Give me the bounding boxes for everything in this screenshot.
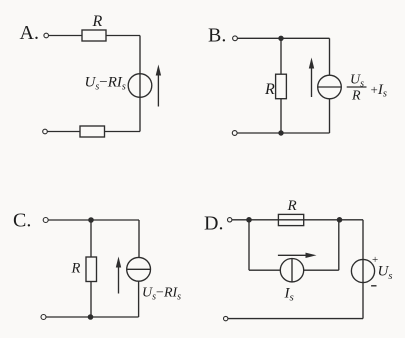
resistor R (option C) — [86, 257, 97, 282]
wire — [329, 99, 331, 133]
svg-text:D.: D. — [204, 213, 223, 235]
terminal (bottom-left, option D) — [224, 316, 228, 320]
svg-text:A.: A. — [20, 22, 39, 44]
node (junction dot bottom, option B) — [278, 130, 283, 135]
wire — [49, 35, 82, 37]
voltage source Us (option D) — [351, 259, 374, 282]
terminal (top-left, option A) — [44, 33, 49, 38]
arrow (reference direction, option A) — [156, 65, 161, 107]
terminal (top-left, option B) — [233, 36, 238, 41]
terminal (bottom-left, option A) — [43, 129, 48, 134]
svg-text:Us−RIs: Us−RIs — [142, 286, 181, 303]
terminal (bottom-left, option B) — [232, 131, 237, 136]
resistor R (option A top) — [82, 30, 106, 41]
wire — [237, 132, 329, 134]
svg-text:Us−RIs: Us−RIs — [85, 75, 126, 93]
wire — [228, 318, 363, 320]
wire — [249, 269, 280, 271]
label Us/R + Is — [347, 73, 387, 104]
svg-text:R: R — [92, 13, 103, 30]
current source Is (option D) — [280, 259, 303, 282]
current source Us-RIs (option C) — [127, 257, 151, 281]
voltage source Us-RIs (option A) — [128, 74, 152, 98]
wire — [105, 131, 141, 133]
node (junction dot bottom, option C) — [88, 314, 94, 320]
wire — [280, 38, 282, 74]
node (junction dot left, option D) — [246, 217, 252, 223]
resistor (option A bottom, unlabeled) — [80, 126, 105, 137]
arrow (reference direction, option C) — [116, 257, 121, 294]
arrow (reference direction, option B) — [309, 58, 314, 98]
wire — [48, 219, 139, 221]
wire — [362, 220, 364, 319]
wire — [329, 38, 331, 75]
resistor R (option D) — [278, 214, 303, 225]
wire — [47, 131, 80, 133]
wire — [238, 37, 330, 39]
svg-text:B.: B. — [208, 25, 226, 47]
terminal (top-left, option C) — [43, 218, 48, 223]
arrow (current direction, option D) — [278, 253, 317, 258]
svg-text:R: R — [287, 198, 297, 214]
wire — [280, 99, 282, 133]
wire — [248, 220, 250, 270]
svg-text:C.: C. — [13, 210, 31, 232]
node (junction dot top, option B) — [278, 36, 283, 41]
wire — [232, 219, 363, 221]
wire — [138, 281, 140, 317]
wire — [106, 35, 140, 37]
svg-text:R: R — [71, 261, 81, 277]
wire — [139, 36, 141, 132]
wire — [90, 282, 92, 318]
terminal (bottom-left, option C) — [41, 315, 46, 320]
terminal (top-left, option D) — [228, 218, 232, 222]
node (junction dot top, option C) — [88, 217, 94, 223]
wire — [338, 220, 340, 270]
current source Us/R+Is (option B) — [318, 75, 342, 99]
label - polarity — [371, 285, 376, 287]
wire — [46, 316, 139, 318]
wire — [304, 269, 339, 271]
node (junction dot right, option D) — [337, 217, 343, 223]
svg-text:R: R — [351, 88, 361, 103]
svg-text:R: R — [264, 81, 275, 98]
wire — [90, 220, 92, 257]
resistor R (option B) — [276, 74, 287, 99]
wire — [138, 220, 140, 257]
